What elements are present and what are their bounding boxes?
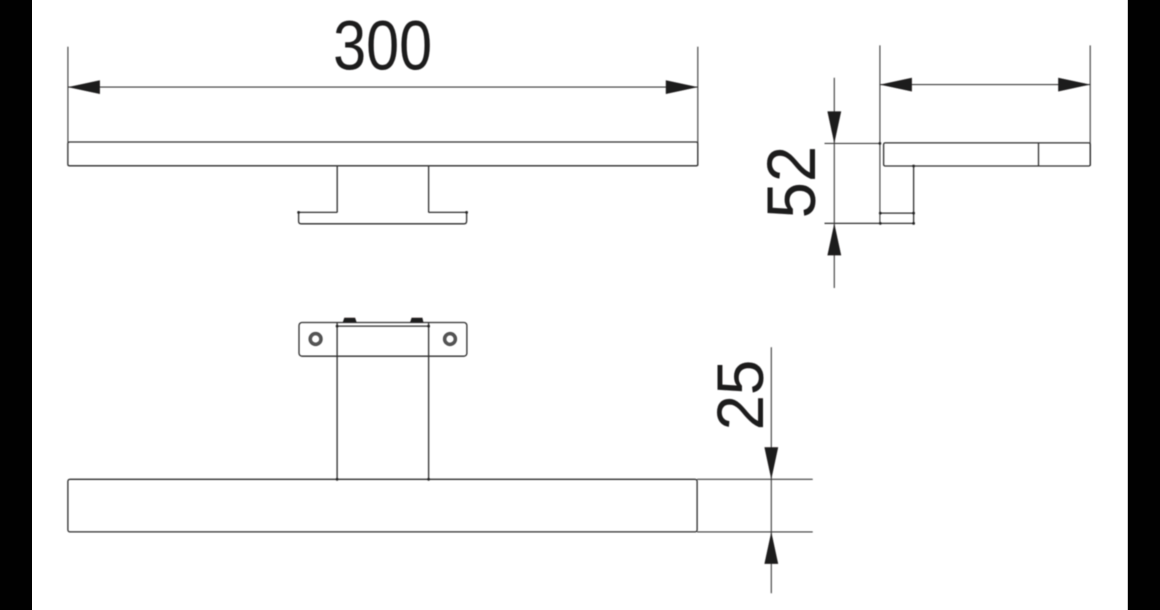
front view foot plate top edge left segment xyxy=(299,211,338,213)
bottom view right screw hole outer edge xyxy=(443,332,456,345)
bottom view right clip tab xyxy=(410,318,423,323)
node: side foot bottom left xyxy=(879,222,882,225)
dimension 52 top extension line xyxy=(825,142,881,144)
bottom view column top inner line xyxy=(337,325,429,327)
node: front foot plate top right xyxy=(465,211,468,214)
front view lamp bar outline xyxy=(68,142,698,166)
node: column bottom left on bar xyxy=(336,478,339,481)
front view bracket arm right edge xyxy=(428,166,430,213)
side view bracket arm right edge xyxy=(913,166,915,223)
dimension 25 bottom extension line xyxy=(697,531,813,533)
dimension 300 right extension line xyxy=(697,47,699,166)
junction node dots xyxy=(297,142,915,481)
bottom view column right edge xyxy=(428,323,430,480)
node: column bottom right on bar xyxy=(427,478,430,481)
side view width dimension line xyxy=(880,84,1090,86)
left letterbox bar xyxy=(0,0,32,610)
node: side foot top right xyxy=(912,212,915,215)
side view bracket arm bottom / foot top edge xyxy=(880,212,913,214)
node: side foot top left xyxy=(879,212,882,215)
dimension 25 line xyxy=(770,347,772,593)
node: 52 top extension meets bracket face xyxy=(879,142,882,145)
bottom view right screw hole ring xyxy=(445,334,455,344)
dimension 52 upper arrowhead pointing down xyxy=(827,111,841,143)
dimension 300 right arrowhead xyxy=(666,80,698,94)
side view width dimension right extension line xyxy=(1089,45,1091,165)
dimension 300 left arrowhead xyxy=(68,80,100,94)
node: front foot plate top left xyxy=(297,211,300,214)
bottom view mounting plate outline xyxy=(299,323,467,357)
side view width dimension right arrowhead xyxy=(1058,78,1090,92)
svg-text:300: 300 xyxy=(333,7,432,85)
node: side arm right edge meets bar bottom xyxy=(912,165,915,168)
dimension 25 upper arrowhead pointing down xyxy=(764,447,778,479)
side view width dimension left extension line (also bracket left face) xyxy=(879,45,881,223)
svg-text:52: 52 xyxy=(753,146,830,219)
dimension 25 top extension line xyxy=(697,478,813,480)
dimension 25 lower arrowhead pointing up xyxy=(764,532,778,564)
bottom view lamp bar outline xyxy=(68,479,697,532)
dimension 300 left extension line xyxy=(67,47,69,166)
dimension 52 lower arrowhead pointing up xyxy=(827,223,841,255)
front view foot plate body xyxy=(299,212,467,223)
side view lamp bar outline xyxy=(884,143,1091,166)
node: side foot bottom right xyxy=(912,222,915,225)
bottom view left screw hole outer edge xyxy=(309,332,322,345)
node: column top line left xyxy=(336,325,339,328)
side view foot plate bottom edge with 52 bottom extension xyxy=(825,222,914,224)
front view bracket arm left edge xyxy=(336,166,338,213)
dimension 300 line xyxy=(68,86,698,88)
side view width dimension left arrowhead xyxy=(880,78,912,92)
bottom view column left edge xyxy=(336,323,338,480)
front view foot plate top edge right segment xyxy=(429,211,467,213)
bottom view left clip tab xyxy=(343,318,357,323)
node: column top line right xyxy=(427,325,430,328)
side view lamp bar inner divider xyxy=(1038,143,1040,166)
dimension 52 line xyxy=(833,78,835,288)
svg-text:25: 25 xyxy=(703,360,777,431)
right letterbox bar xyxy=(1128,0,1160,610)
bottom view left screw hole ring xyxy=(310,334,320,344)
